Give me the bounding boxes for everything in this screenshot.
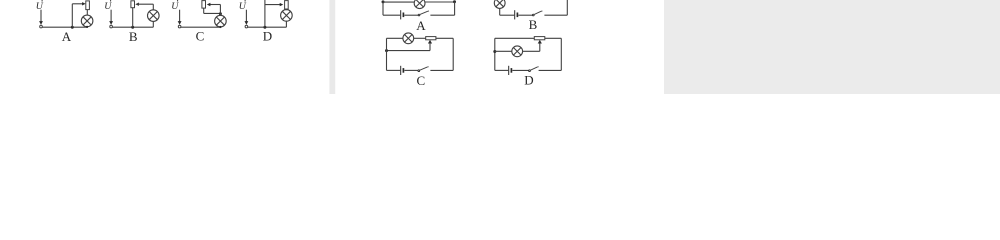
- left option B: slider wire: [137, 3, 153, 5]
- middle option C: bottom wire left segment: [387, 69, 401, 71]
- left option C: lamp L: [215, 15, 227, 27]
- page background: [0, 0, 1000, 94]
- left option D: label D: [263, 28, 272, 43]
- middle option D: switch: [529, 67, 539, 72]
- middle option D: battery cell: [509, 66, 512, 75]
- left option B: label B: [129, 29, 138, 44]
- left option B: U arrowhead: [109, 21, 113, 25]
- left option B: junction dot: [131, 26, 134, 29]
- middle option B: right vertical wire: [566, 0, 568, 15]
- middle option C: slider arrowhead: [428, 40, 432, 44]
- left option C: junction dot: [219, 12, 222, 15]
- middle option B: label B: [529, 17, 538, 32]
- middle option D: bottom wire mid segment: [512, 69, 528, 71]
- middle option C: label C: [416, 73, 425, 88]
- middle option C: slider feed wire: [387, 50, 431, 52]
- left option D: rheostat R: [285, 1, 289, 9]
- middle option B: lamp: [494, 0, 505, 8]
- middle option D: bottom wire left segment: [495, 69, 508, 71]
- middle option C: top wire right segment: [436, 37, 453, 39]
- middle option C: slider riser wire: [429, 43, 431, 50]
- left option A: U arrow wire: [40, 10, 42, 23]
- middle option C: switch: [418, 67, 429, 72]
- left option D: U arrowhead: [245, 21, 249, 25]
- left option C: input terminal: [178, 25, 181, 28]
- middle option C: top wire mid segment: [414, 37, 426, 39]
- left option A: bottom wire: [42, 26, 87, 28]
- svg-text:U: U: [36, 1, 44, 12]
- left option B: wire resistor to bottom: [132, 8, 134, 28]
- left option D: slider arrowhead: [280, 3, 284, 6]
- left option A: lamp L: [81, 15, 93, 27]
- svg-text:B: B: [529, 17, 538, 32]
- middle option B: lamp drop wire: [499, 8, 501, 15]
- middle option A: bottom wire right segment: [430, 14, 454, 16]
- left option D: riser wire: [264, 0, 266, 27]
- middle option C: left vertical wire: [386, 38, 388, 70]
- middle option D: feed wire left segment: [495, 50, 512, 52]
- middle option C: feed junction dot: [385, 49, 388, 52]
- left option A: U arrowhead: [39, 21, 43, 25]
- left option B: input terminal: [110, 25, 113, 28]
- middle option A: battery cell: [401, 10, 404, 19]
- middle option D: slider arrowhead: [538, 40, 542, 44]
- left option A: junction dot: [71, 26, 74, 29]
- left option A: label A: [62, 29, 72, 44]
- svg-text:D: D: [263, 28, 272, 43]
- left option A: lamp-wire dot: [86, 26, 88, 28]
- middle option C: rheostat R: [426, 37, 436, 40]
- left option C: U arrowhead: [178, 21, 182, 25]
- left option C: rheostat R: [202, 1, 206, 9]
- middle option A: top wire left segment: [383, 1, 414, 3]
- svg-text:A: A: [62, 29, 72, 44]
- middle option C: lamp: [403, 33, 414, 44]
- left option A: riser wire: [71, 4, 73, 27]
- left option C: lamp stub: [219, 14, 221, 16]
- svg-text:U: U: [171, 1, 179, 12]
- left option B: U arrow wire: [110, 10, 112, 23]
- left option B: bottom wire: [113, 26, 154, 28]
- left option D: input terminal: [245, 25, 248, 28]
- middle option D: right vertical wire: [560, 38, 562, 70]
- left option D: junction dot: [263, 26, 266, 29]
- left option C: label C: [196, 29, 205, 44]
- middle option B: switch: [532, 11, 542, 16]
- middle option C: right vertical wire: [452, 38, 454, 70]
- left option A: voltage label U: [36, 1, 44, 12]
- svg-text:D: D: [524, 73, 533, 88]
- left option D: voltage label U: [239, 1, 247, 12]
- middle option D: left vertical wire: [494, 38, 496, 70]
- left option B: lamp to wire stub: [152, 21, 154, 27]
- left option B: slider arrowhead: [135, 3, 139, 6]
- middle option B: bottom wire mid segment: [518, 14, 532, 16]
- middle option A: top wire right segment: [425, 1, 455, 3]
- svg-text:C: C: [196, 29, 205, 44]
- middle option D: top wire left segment: [495, 37, 535, 39]
- middle option D: lamp: [512, 46, 523, 57]
- middle option A: label A: [416, 18, 426, 33]
- middle option D: feed junction dot: [493, 50, 496, 53]
- middle option A: right vertical wire: [454, 2, 456, 15]
- left option C: voltage label U: [171, 1, 179, 12]
- left option A: input terminal: [40, 25, 43, 28]
- left option D: U arrow wire: [245, 10, 247, 23]
- left option C: U arrow wire: [179, 10, 181, 23]
- middle option A: bottom wire left segment: [383, 14, 400, 16]
- middle option A: bottom wire mid segment: [404, 14, 418, 16]
- left option D: resistor-lamp stub: [285, 9, 287, 10]
- left option A: wire resistor to lamp: [86, 10, 88, 16]
- left option C: riser wire: [219, 5, 221, 14]
- left option B: voltage label U: [104, 1, 112, 12]
- left option B: lamp L: [148, 10, 160, 22]
- middle option C: bottom wire mid segment: [404, 69, 417, 71]
- middle option D: bottom wire right segment: [539, 69, 562, 71]
- svg-text:B: B: [129, 29, 138, 44]
- middle option D: slider riser wire: [539, 43, 541, 51]
- left option C: resistor drop wire: [203, 8, 205, 13]
- left option C: lamp-wire dot: [219, 26, 221, 28]
- svg-text:A: A: [416, 18, 426, 33]
- svg-text:C: C: [416, 73, 425, 88]
- left option C: bottom wire: [181, 26, 220, 28]
- left option A: slider arrowhead: [82, 2, 86, 5]
- middle option D: top wire right segment: [545, 37, 562, 39]
- middle option D: rheostat R: [534, 37, 545, 40]
- middle option A: left vertical wire: [382, 2, 384, 15]
- left option D: lamp L: [281, 10, 293, 22]
- right margin gray area: [664, 0, 1000, 94]
- middle option A: top-right junction dot: [453, 0, 456, 3]
- middle option A: top-left junction dot: [382, 0, 385, 3]
- middle option B: bottom wire right segment: [544, 14, 567, 16]
- middle option A: switch: [418, 11, 429, 16]
- left option B: riser wire: [152, 4, 154, 10]
- middle option C: bottom wire right segment: [430, 69, 453, 71]
- svg-text:U: U: [239, 1, 247, 12]
- middle option B: battery cell: [515, 10, 518, 19]
- left option D: slider wire: [265, 4, 282, 6]
- middle option D: feed wire right segment: [523, 50, 540, 52]
- left option C: cross wire: [204, 12, 221, 14]
- left option C: slider wire: [209, 4, 221, 6]
- left option B: rheostat R: [131, 1, 135, 8]
- left option C: slider arrowhead: [207, 3, 211, 6]
- column gap shading strip: [329, 0, 335, 94]
- middle option B: bottom wire left segment: [500, 14, 515, 16]
- middle option A: lamp: [414, 0, 425, 9]
- left option D: bottom wire: [248, 26, 287, 28]
- left option A: rheostat R: [86, 1, 90, 10]
- left option A: slider wire: [72, 3, 84, 5]
- middle option C: top wire left segment: [387, 37, 403, 39]
- middle option C: battery cell: [401, 66, 404, 75]
- middle option D: label D: [524, 73, 533, 88]
- left option D: lamp to wire stub: [285, 21, 287, 27]
